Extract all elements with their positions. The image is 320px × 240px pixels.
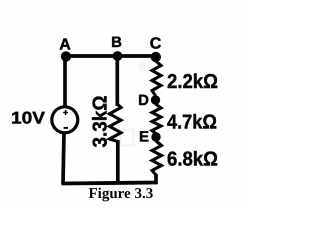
resistor R4 6.8k zigzag: [152, 141, 162, 175]
resistor R1 3.3k zigzag: [110, 104, 122, 142]
wire left branch upper (A to source): [63, 56, 67, 108]
svg-text:B: B: [111, 34, 122, 51]
svg-text:6.8kΩ: 6.8kΩ: [167, 149, 218, 171]
resistor R2 2.2k zigzag: [152, 61, 161, 96]
voltage source V1 circle: [52, 107, 78, 133]
svg-text:C: C: [150, 36, 162, 53]
svg-text:A: A: [59, 37, 71, 54]
faint scan smudge near E: [121, 130, 134, 146]
wire right branch bottom (R4 to bottom rail): [154, 174, 158, 184]
svg-text:4.7kΩ: 4.7kΩ: [167, 112, 217, 134]
voltage source minus terminal: [64, 127, 68, 129]
wire middle branch upper (B to R1): [115, 56, 119, 106]
svg-text:3.3kΩ: 3.3kΩ: [90, 96, 112, 148]
node D: [151, 95, 160, 104]
node C: [151, 52, 161, 62]
wire bottom rail: [62, 183, 158, 184]
svg-text:Figure 3.3: Figure 3.3: [89, 186, 154, 202]
node B: [113, 51, 123, 61]
voltage source plus terminal: [63, 110, 68, 115]
node A: [61, 51, 71, 61]
faint scan smudge near C: [139, 62, 149, 71]
resistor R3 4.7k zigzag: [152, 104, 161, 134]
wire top rail A-B-C: [64, 54, 157, 58]
node E: [151, 132, 160, 141]
svg-text:2.2kΩ: 2.2kΩ: [167, 71, 218, 93]
wire middle branch lower (R1 to bottom rail): [116, 140, 120, 184]
svg-text:10V: 10V: [11, 109, 46, 128]
wire left branch lower (source to bottom rail): [63, 132, 64, 184]
svg-text:E: E: [139, 129, 149, 146]
svg-text:D: D: [138, 92, 149, 109]
